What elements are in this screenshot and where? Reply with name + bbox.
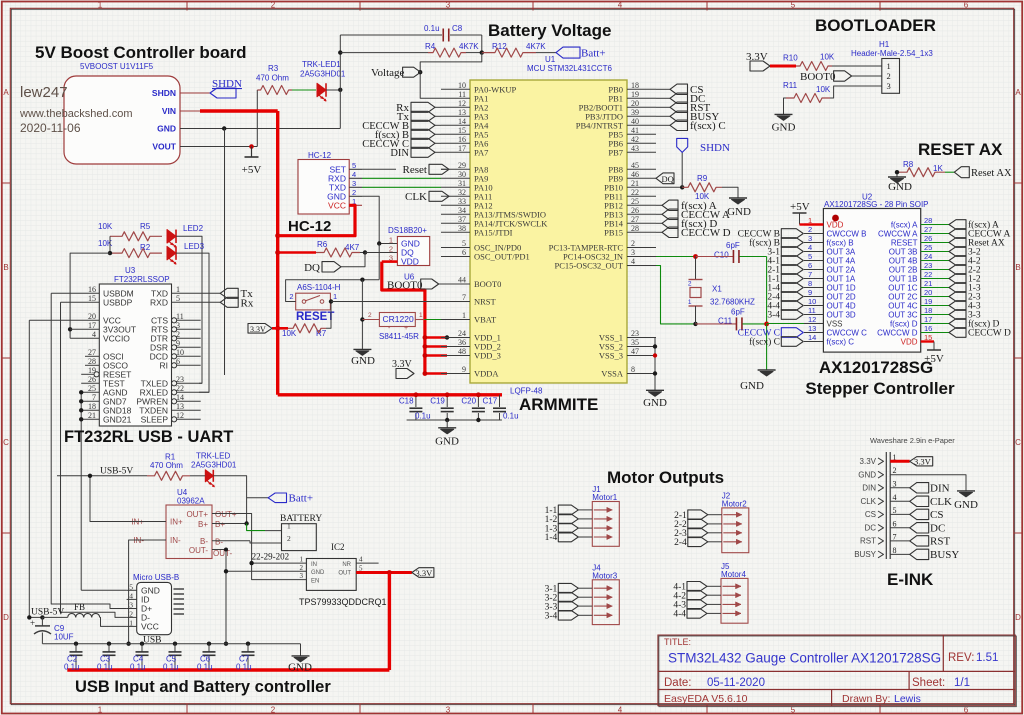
svg-text:Reset: Reset (403, 164, 427, 176)
svg-text:R9: R9 (697, 174, 708, 183)
pin SHDN of U5 (180, 92, 210, 94)
svg-text:GND: GND (157, 124, 176, 134)
svg-text:2: 2 (368, 312, 372, 319)
svg-text:GND: GND (351, 355, 375, 367)
svg-text:3.3V: 3.3V (250, 325, 266, 334)
wire VSS pins to GND (654, 338, 656, 391)
svg-text:2: 2 (271, 1, 276, 10)
svg-text:OUT 1C: OUT 1C (888, 284, 917, 293)
wire LED3 to RXLED (176, 253, 209, 392)
svg-text:Motor1: Motor1 (592, 493, 617, 502)
U2 pin 5 OUT 4A (804, 260, 823, 262)
U2 pin 19 OUT 4C (921, 305, 949, 307)
red wire IC2 OUT 3.3V (356, 571, 412, 574)
U4 pin IN+ (148, 521, 166, 523)
svg-text:5: 5 (462, 239, 466, 248)
svg-text:VDD: VDD (401, 257, 419, 267)
svg-text:DC: DC (864, 524, 876, 533)
wire PB10 to SHDN and R9 (656, 186, 682, 188)
MCU pin 8 VSSA (627, 373, 656, 375)
wire R5/R2 to 3V3OUT (109, 236, 111, 253)
svg-text:3-4: 3-4 (545, 612, 558, 622)
wire IN+ to USB-5V (90, 476, 148, 522)
svg-text:C17: C17 (483, 397, 498, 406)
svg-text:1: 1 (98, 1, 103, 10)
svg-text:3: 3 (893, 479, 897, 488)
svg-text:0.1u: 0.1u (64, 663, 80, 672)
MCU pin 45 PB8 (627, 168, 656, 170)
svg-text:44: 44 (458, 276, 466, 285)
wire R7 to switch pin1 / NRST (326, 302, 331, 329)
svg-text:CR1220: CR1220 (383, 314, 414, 324)
svg-text:7: 7 (808, 270, 812, 279)
svg-text:C: C (1015, 438, 1021, 447)
MCU pin 17 PA7 (441, 151, 470, 153)
svg-text:18: 18 (924, 306, 932, 315)
svg-text:PB15: PB15 (604, 227, 623, 237)
svg-text:IN+: IN+ (170, 518, 183, 527)
svg-text:Motor2: Motor2 (722, 499, 747, 508)
svg-text:15: 15 (88, 294, 96, 303)
svg-text:+: + (404, 325, 408, 332)
svg-text:VSS: VSS (827, 320, 843, 329)
svg-text:RST: RST (860, 537, 876, 546)
svg-text:VOUT: VOUT (152, 142, 176, 152)
svg-text:7: 7 (893, 532, 897, 541)
svg-text:0.1u: 0.1u (236, 663, 252, 672)
U4 pin B+ (212, 523, 247, 525)
net flag DQ (322, 262, 341, 272)
net flag 2-3 at U2 right (949, 292, 966, 302)
svg-text:28: 28 (924, 216, 932, 225)
svg-text:34: 34 (458, 206, 466, 215)
net flag f(scx) C (656, 124, 670, 126)
sensor U6 DS18B20 body (397, 237, 429, 266)
svg-text:22: 22 (176, 384, 184, 393)
net flag f(scx) D (656, 222, 662, 224)
svg-text:31: 31 (458, 179, 466, 188)
MCU pin 23 VSS_1 (627, 337, 656, 339)
MCU pin 40 PB4/JNTRST (627, 124, 656, 126)
junction VIN/R6 (275, 250, 280, 255)
U2 pin 1 VDD (804, 223, 823, 225)
capacitor C2 0.1u (74, 642, 78, 646)
svg-text:20: 20 (88, 312, 96, 321)
wire B+ to battery pin1 (green) (247, 524, 265, 531)
svg-text:DIN: DIN (862, 484, 876, 493)
net flag Reset AX (954, 167, 969, 178)
U2 pin 7 OUT 1A (804, 278, 823, 280)
svg-text:www.thebackshed.com: www.thebackshed.com (19, 108, 133, 120)
MCU pin 44 BOOT0 (441, 283, 470, 285)
svg-text:2: 2 (300, 564, 304, 572)
U4 pin IN- (148, 539, 166, 541)
wire CR1220 pin2 to GND (362, 319, 379, 321)
red wire DS18B20 VDD to 3.3V rail (382, 260, 398, 263)
svg-text:1: 1 (688, 299, 692, 306)
svg-text:OUT 2A: OUT 2A (827, 266, 856, 275)
svg-text:RESET: RESET (891, 239, 918, 248)
svg-text:OUT 2C: OUT 2C (888, 293, 917, 302)
svg-text:DIN: DIN (930, 483, 950, 495)
MCU pin 42 PB6 (627, 142, 656, 144)
svg-text:41: 41 (631, 126, 639, 135)
MCU pin 3 PC14-OSC32_IN (627, 256, 656, 258)
svg-text:2: 2 (287, 534, 291, 543)
wire HC-12 GND to DS18B20 GND (362, 196, 397, 243)
wire PC14 to C10 (green) (656, 256, 696, 258)
svg-text:CLK: CLK (405, 191, 427, 203)
svg-text:26: 26 (631, 206, 639, 215)
U2 pin 22 OUT 1B (921, 278, 949, 280)
svg-text:GND21: GND21 (103, 414, 132, 424)
svg-text:35: 35 (631, 338, 639, 347)
svg-text:IN-: IN- (170, 536, 181, 545)
svg-text:DIN: DIN (390, 148, 409, 159)
net flag Reset AX at U2 right (949, 238, 966, 248)
svg-text:3.3V: 3.3V (914, 457, 932, 467)
svg-text:4K7K: 4K7K (459, 42, 479, 51)
svg-text:RESET AX: RESET AX (918, 140, 1003, 159)
svg-text:SLEEP: SLEEP (141, 414, 169, 424)
svg-text:R11: R11 (783, 81, 798, 90)
svg-text:23: 23 (176, 375, 184, 384)
svg-text:B: B (1015, 263, 1020, 272)
svg-text:21: 21 (631, 179, 639, 188)
MCU pin 4 PC15-OSC32_OUT (627, 265, 656, 267)
svg-text:15: 15 (458, 126, 466, 135)
connector Micro USB-B body (137, 582, 172, 634)
net flag CS (656, 88, 670, 90)
svg-text:4: 4 (92, 330, 96, 339)
svg-text:+: + (30, 618, 35, 628)
svg-text:2020-11-06: 2020-11-06 (20, 121, 81, 135)
U2 pin 4 OUT 3A (804, 251, 823, 253)
svg-text:OUT 3A: OUT 3A (827, 248, 856, 257)
svg-text:14: 14 (176, 393, 184, 402)
svg-text:1: 1 (98, 705, 103, 714)
svg-text:CLK: CLK (860, 497, 876, 506)
U2 pin 9 OUT 2D (804, 296, 823, 298)
svg-text:GND: GND (643, 397, 667, 409)
U2 pin 25 OUT 3B (921, 251, 949, 253)
svg-text:2: 2 (389, 245, 393, 254)
svg-text:TITLE:: TITLE: (664, 637, 691, 647)
net flag 3-3 at U2 right (949, 310, 966, 320)
svg-text:10UF: 10UF (54, 633, 74, 642)
svg-text:CWCCW D: CWCCW D (877, 329, 918, 338)
svg-text:BUSY: BUSY (930, 549, 959, 561)
MCU pin 16 PA6 (441, 142, 470, 144)
svg-text:GND: GND (888, 181, 912, 193)
MCU pin 5 OSC_IN/PD0 (441, 247, 470, 249)
svg-text:45: 45 (631, 161, 639, 170)
svg-text:VIN: VIN (162, 106, 176, 116)
svg-text:3: 3 (352, 179, 356, 188)
svg-text:03962A: 03962A (177, 497, 205, 506)
svg-text:22: 22 (631, 188, 639, 197)
svg-text:Batt+: Batt+ (289, 493, 314, 505)
svg-text:SHDN: SHDN (212, 78, 242, 90)
svg-text:VSSA: VSSA (601, 369, 624, 379)
junction R6/DQ (363, 250, 367, 254)
svg-text:C8: C8 (452, 24, 463, 33)
svg-text:7: 7 (462, 293, 466, 302)
U2 pin 3 f(scx) B (804, 242, 823, 244)
U4 pin B- (212, 540, 250, 542)
svg-text:32.7680KHZ: 32.7680KHZ (710, 298, 755, 307)
junction VIN/HC-12 VCC (275, 233, 280, 238)
svg-text:12: 12 (458, 99, 466, 108)
junction GND/R4 (338, 50, 342, 54)
svg-text:SHDN: SHDN (700, 142, 730, 154)
svg-text:10K: 10K (98, 222, 113, 231)
svg-text:9: 9 (462, 365, 466, 374)
wire HC-12 SET to Reset flag (362, 168, 396, 170)
capacitor C3 0.1u (107, 642, 111, 646)
svg-text:OUT 2D: OUT 2D (827, 293, 856, 302)
wire FB to USB VCC (100, 617, 127, 626)
junction VIN/R7 flag (275, 326, 280, 331)
capacitor C6 0.1u (207, 642, 211, 646)
svg-text:R12: R12 (492, 42, 507, 51)
svg-text:R8: R8 (903, 160, 914, 169)
svg-text:23: 23 (631, 329, 639, 338)
MCU pin 37 PA14/JTCK/SWCLK (441, 222, 470, 224)
wire C8 right down to divider node (481, 35, 483, 53)
wire U3 grounds to USB GND (80, 392, 82, 590)
svg-text:5: 5 (893, 506, 897, 515)
svg-text:OUT 1B: OUT 1B (889, 275, 918, 284)
svg-text:EN: EN (311, 578, 319, 584)
net flag DC (656, 97, 670, 99)
svg-text:2: 2 (893, 466, 897, 475)
svg-text:23: 23 (924, 261, 932, 270)
wire R8 to GND (896, 172, 898, 177)
net flag 4-3 at U2 right (949, 301, 966, 311)
MCU pin 6 OSC_OUT/PD1 (441, 256, 470, 258)
wire IC2 GND to OUT- vertical (226, 570, 306, 572)
svg-text:CWCCW B: CWCCW B (827, 230, 867, 239)
svg-text:3-4: 3-4 (767, 311, 780, 321)
U2 pin 8 OUT 1D (804, 287, 823, 289)
svg-text:6pF: 6pF (731, 308, 745, 317)
wire R6 to DS18B20 DQ (365, 252, 397, 254)
svg-text:2: 2 (289, 292, 293, 301)
svg-text:33: 33 (458, 197, 466, 206)
svg-text:OUT-: OUT- (189, 546, 208, 555)
svg-text:1: 1 (176, 285, 180, 294)
capacitor C7 0.1u (246, 642, 250, 646)
USB shield tabs (174, 588, 185, 590)
svg-text:5VBOOST U1V11F5: 5VBOOST U1V11F5 (80, 62, 154, 71)
svg-text:OUT 4D: OUT 4D (827, 302, 856, 311)
ground symbol USB area (292, 655, 310, 657)
svg-text:19: 19 (924, 297, 932, 306)
svg-text:GND: GND (435, 436, 459, 448)
svg-text:f(scx) C: f(scx) C (749, 337, 780, 348)
svg-text:A: A (3, 88, 9, 97)
svg-text:25: 25 (631, 197, 639, 206)
svg-text:18: 18 (631, 81, 639, 90)
svg-text:GND: GND (727, 206, 751, 218)
svg-text:0.1u: 0.1u (197, 663, 213, 672)
svg-text:OUT 2B: OUT 2B (889, 266, 918, 275)
wire HC-12 RXD to PA9 (green) (362, 177, 441, 179)
svg-text:MCU STM32L431CCT6: MCU STM32L431CCT6 (527, 64, 612, 73)
switch A6S-1104-H body (296, 293, 331, 310)
wire OUT- to GND bus (225, 550, 227, 644)
pin GND of U5 (180, 128, 340, 130)
svg-text:VDD: VDD (901, 338, 918, 347)
svg-text:OUT 3C: OUT 3C (888, 311, 917, 320)
svg-text:Batt+: Batt+ (581, 48, 606, 60)
MCU pin 14 PA4 (441, 124, 470, 126)
svg-text:f(scx) B: f(scx) B (827, 239, 854, 248)
svg-text:24: 24 (924, 252, 932, 261)
MCU pin 24 VDD_1 (441, 337, 470, 339)
U2 pin 15 VDD (921, 340, 934, 342)
svg-text:GND: GND (740, 380, 764, 392)
svg-text:B-: B- (200, 537, 208, 546)
svg-text:VDDA: VDDA (474, 369, 499, 379)
MCU pin 46 PB9 (627, 177, 656, 179)
wire U3 GND net to USB GND pin (81, 589, 126, 591)
net flag Tx (220, 288, 238, 298)
svg-text:3.3V: 3.3V (416, 568, 434, 578)
junction HC12 GND / DS18B20 GND (377, 241, 381, 245)
MCU pin 18 PB0 (627, 88, 656, 90)
U2 pin 10 OUT 4D (804, 305, 823, 307)
svg-text:Drawn By:: Drawn By: (842, 693, 890, 705)
svg-text:USB-5V: USB-5V (100, 467, 133, 477)
svg-text:1: 1 (808, 216, 812, 225)
net flag DC e-paper (890, 527, 910, 529)
svg-text:BUSY: BUSY (854, 550, 876, 559)
ground symbol at R11 (775, 113, 793, 115)
svg-text:10: 10 (808, 297, 816, 306)
svg-text:IC2: IC2 (331, 542, 345, 552)
net flag DQ at PB9 (656, 173, 674, 184)
wire R8 to Reset AX flag (green) (945, 171, 954, 173)
U2 pin 6 OUT 2A (804, 269, 823, 271)
net flag f(scx) D at U2 right (949, 319, 966, 329)
svg-text:TRK-LED1: TRK-LED1 (302, 60, 341, 69)
red wire e-paper 3.3V (890, 460, 910, 463)
MCU pin 26 PB13 (627, 213, 656, 215)
U2 pin 14 f(scx) C (804, 341, 823, 343)
svg-text:0.1u: 0.1u (503, 412, 519, 421)
svg-text:VDD_3: VDD_3 (474, 351, 501, 361)
svg-text:6pF: 6pF (726, 241, 740, 250)
svg-text:28: 28 (631, 224, 639, 233)
stepper driver U2 AX1201728SG body (823, 209, 920, 353)
svg-text:AX1201728SG - 28 Pin SOIP: AX1201728SG - 28 Pin SOIP (824, 200, 929, 209)
svg-text:Waveshare 2.9in e-Paper: Waveshare 2.9in e-Paper (870, 436, 955, 445)
svg-text:SHDN: SHDN (152, 88, 176, 98)
net flag 1-2 at U2 right (949, 274, 966, 284)
wire VCC U3 to USB-5V node (29, 320, 42, 617)
svg-text:1: 1 (389, 236, 393, 245)
power flag +5V at VOUT (249, 144, 254, 149)
svg-text:OUT 1D: OUT 1D (827, 284, 856, 293)
svg-text:BOOT0: BOOT0 (800, 71, 836, 83)
svg-text:OUT+: OUT+ (215, 510, 237, 519)
svg-text:R10: R10 (783, 54, 798, 63)
wire USBDM to D+ (51, 293, 126, 608)
svg-text:0.1u: 0.1u (97, 663, 113, 672)
svg-text:f(scx) C: f(scx) C (827, 338, 855, 347)
net flag CECCW A (656, 213, 662, 215)
wire cap ground bus (407, 419, 502, 421)
MCU pin 48 VDD_3 (441, 355, 470, 357)
U2 pin 27 CWCCW A (921, 233, 949, 235)
thick red 3.3V rail down and left (388, 573, 391, 671)
MCU pin 27 PB14 (627, 222, 656, 224)
net flag CECCW A at U2 right (949, 229, 966, 239)
wire switch pin2 to GND net (286, 280, 380, 302)
svg-text:11: 11 (808, 306, 816, 315)
ground symbol at R8 (888, 176, 906, 178)
svg-text:DC: DC (930, 523, 945, 535)
svg-text:8: 8 (893, 546, 897, 555)
svg-text:2-4: 2-4 (674, 538, 687, 548)
power flag +5V at U2 VDD15 (933, 342, 935, 351)
svg-text:D: D (3, 613, 9, 622)
wire LED to Batt+ node (213, 476, 246, 524)
wire C10 to VSS of U2 (green) (766, 257, 768, 324)
wire R10 to header pin1 (832, 65, 882, 67)
net flag RST (656, 106, 670, 108)
net flag 4-2 at U2 right (949, 256, 966, 266)
wire down to DQ flag (341, 253, 365, 267)
svg-text:C10: C10 (714, 251, 729, 260)
svg-text:CS: CS (865, 510, 876, 519)
svg-text:0.1u: 0.1u (424, 24, 440, 33)
ground symbol e-paper (957, 490, 975, 492)
svg-text:PA15/JTDI: PA15/JTDI (474, 227, 513, 237)
MCU pin 47 VSS_3 (627, 355, 656, 357)
svg-text:05-11-2020: 05-11-2020 (707, 677, 765, 689)
svg-text:4: 4 (631, 257, 635, 266)
svg-text:FT232RL USB - UART: FT232RL USB - UART (64, 428, 233, 446)
svg-text:4: 4 (808, 243, 812, 252)
net flag SHDN (210, 88, 236, 98)
svg-text:26: 26 (88, 375, 96, 384)
battery CR1220 body (379, 313, 415, 327)
svg-text:14: 14 (458, 117, 466, 126)
svg-text:21: 21 (88, 411, 96, 420)
svg-text:17: 17 (88, 321, 96, 330)
ground symbol at VSSA (646, 389, 664, 391)
ground symbol below caps (438, 427, 456, 429)
U2 pin 24 OUT 4B (921, 260, 949, 262)
svg-text:+5V: +5V (790, 201, 810, 213)
svg-text:16: 16 (924, 324, 932, 333)
wire LED1 to GND net (326, 89, 340, 91)
svg-text:6: 6 (462, 248, 466, 257)
junction LED1/GND vertical (338, 88, 342, 92)
wire HC12-GND vertical joins net (378, 244, 380, 280)
svg-text:Rx: Rx (241, 298, 254, 310)
svg-text:27: 27 (631, 215, 639, 224)
svg-text:RST: RST (930, 536, 950, 548)
svg-text:6: 6 (808, 261, 812, 270)
svg-text:2: 2 (271, 705, 276, 714)
svg-text:13: 13 (808, 324, 816, 333)
wire B- to battery pin2 (250, 541, 265, 543)
wire LED2 to TXLED (176, 236, 202, 383)
